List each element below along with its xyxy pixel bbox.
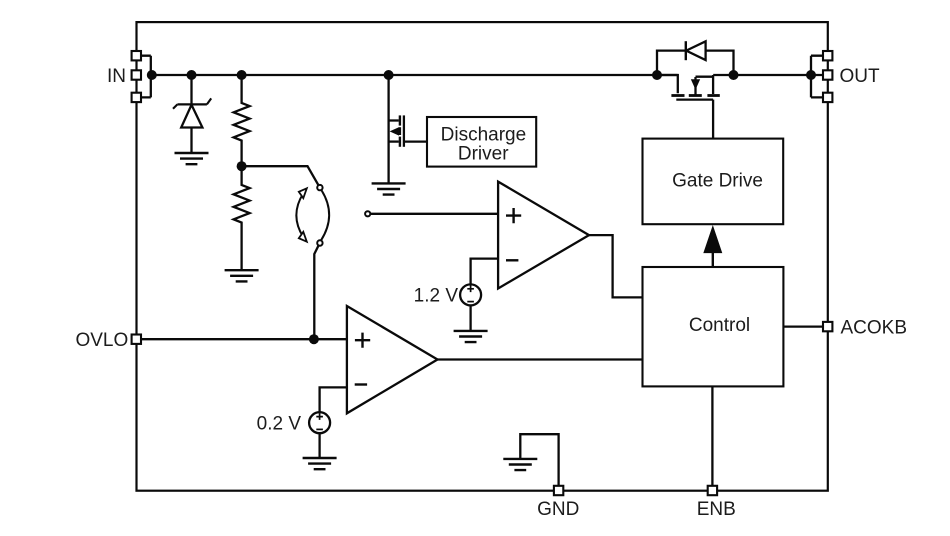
label GND [537,499,579,520]
wire: ACOKB net [783,325,823,327]
junction dot: pass FET drain node [652,70,662,80]
block: Gate Drive [643,139,784,225]
svg-text:0.2 V: 0.2 V [257,414,302,435]
junction dot: IN node [147,70,157,80]
svg-text:OUT: OUT [840,66,881,87]
svg-text:Discharge: Discharge [441,125,527,146]
junction dot: zener tap [187,70,197,80]
voltage source V2 0.2V [309,387,347,458]
ground (V2) [303,458,337,469]
wire: divider tap to switch [242,166,319,185]
switch S1 tap select [296,185,329,246]
wire: ENB net [711,386,713,486]
junction dot: OVLO node [309,334,319,344]
label OUT [840,66,881,87]
wire: input rail IN to pass FET drain [152,74,678,76]
label OVLO [75,330,128,351]
label ACOKB [841,317,908,338]
ground (zener) [175,153,209,164]
wire: switch to OVLO node [314,246,318,340]
body diode D2 [657,41,734,75]
pin OVLO [132,335,141,344]
junction dot: discharge FET drain [384,70,394,80]
node: U1 plus input (open circle) [365,211,370,216]
svg-text:ACOKB: ACOKB [841,317,908,338]
wire: OUT bracket [811,56,823,98]
pin ACOKB [823,322,832,331]
block: Control [643,267,784,386]
junction dot: divider tap node [237,161,247,171]
value label 1.2 V [414,286,459,307]
pin GND [554,486,563,495]
ground (R2 bottom) [225,270,259,281]
svg-text:ENB: ENB [697,499,736,520]
junction dot: pass FET source node [729,70,739,80]
transistor Q1 (pass PFET) [657,75,720,139]
svg-text:Driver: Driver [458,144,509,165]
pin IN (3 terminal squares) [132,51,141,102]
wire: U1 output to Control [589,235,643,297]
svg-text:Control: Control [689,315,750,336]
label IN [107,66,126,87]
svg-text:OVLO: OVLO [75,330,128,351]
transistor Q2 (discharge NFET) [389,75,427,183]
block: Discharge Driver [427,117,536,167]
zener diode D1 [173,75,211,153]
value label 0.2 V [257,414,302,435]
junction dot: OUT node [806,70,816,80]
comparator U1 (ACOK comparator) [498,182,589,289]
wire: GND internal [520,434,558,486]
svg-text:GND: GND [537,499,579,520]
arrow: Control to Gate Drive [704,227,722,267]
svg-text:IN: IN [107,66,126,87]
wire: OVLO net [141,338,348,340]
ground (GND pin) [503,459,537,470]
wire: pass FET source rail to OUT [713,74,823,76]
IC boundary [137,22,828,491]
junction dot: divider top [237,70,247,80]
resistor R2 [234,166,250,270]
pin OUT (3 terminal squares) [823,51,832,102]
wire: U1 plus input [371,213,499,215]
comparator U2 (OVLO comparator) [347,306,438,413]
resistor R1 [234,75,250,166]
ground (V1) [454,331,488,342]
wire: IN bracket [141,56,151,98]
svg-text:Gate Drive: Gate Drive [672,171,763,192]
svg-text:1.2 V: 1.2 V [414,286,459,307]
ground (Q2) [372,183,406,194]
voltage source V1 1.2V [460,259,498,331]
label ENB [697,499,736,520]
pin ENB [708,486,717,495]
wire: U2 output to Control [438,358,643,360]
